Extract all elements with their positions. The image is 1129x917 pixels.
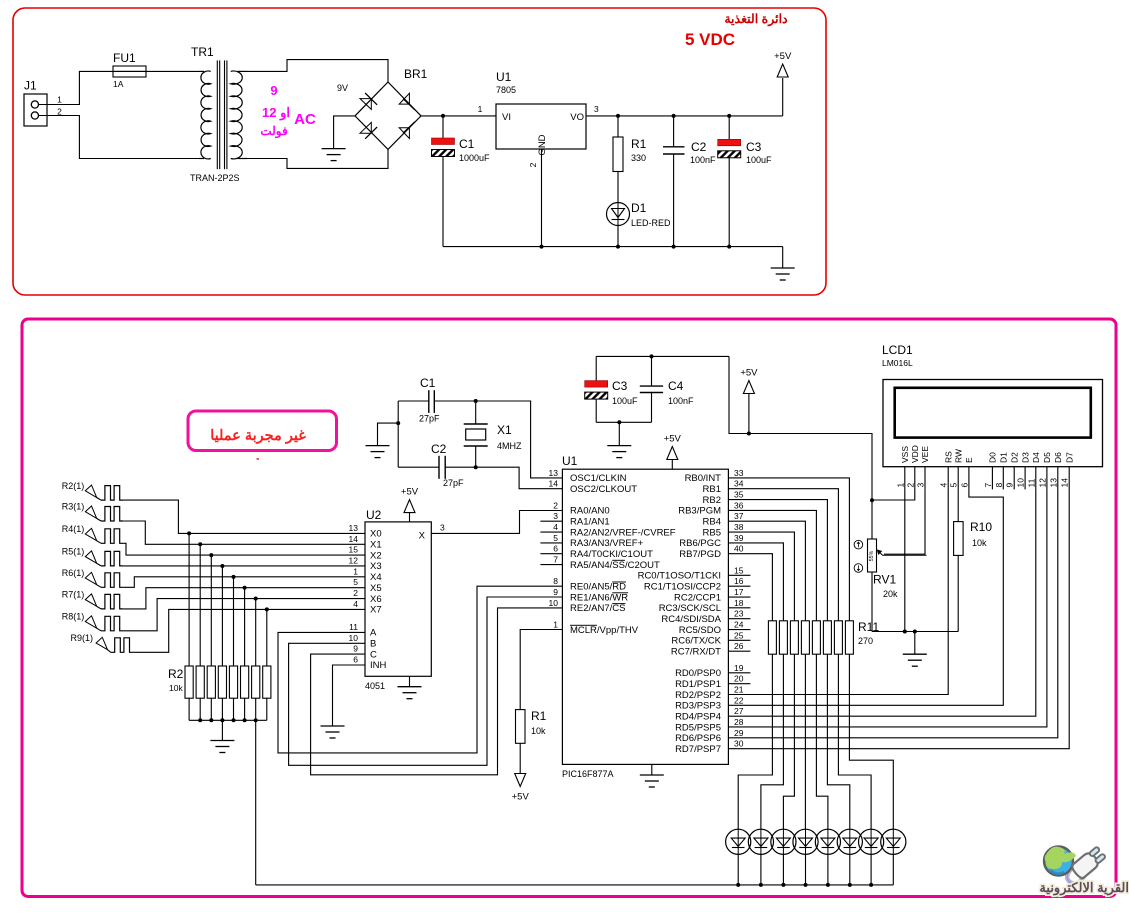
- svg-text:9: 9: [270, 83, 277, 98]
- svg-text:5: 5: [553, 533, 558, 543]
- svg-text:1A: 1A: [113, 79, 124, 89]
- svg-text:13: 13: [549, 468, 559, 478]
- svg-text:8: 8: [553, 576, 558, 586]
- svg-text:11: 11: [349, 622, 358, 632]
- svg-text:RC1/T1OSI/CCP2: RC1/T1OSI/CCP2: [644, 582, 721, 593]
- svg-text:دائرة التغذية: دائرة التغذية: [724, 12, 788, 27]
- svg-text:D6: D6: [1053, 452, 1063, 463]
- svg-text:RB7/PGD: RB7/PGD: [679, 549, 721, 560]
- svg-text:AC: AC: [294, 111, 316, 128]
- svg-text:RD2/PSP2: RD2/PSP2: [675, 690, 721, 701]
- svg-text:14: 14: [549, 479, 559, 489]
- svg-text:6: 6: [959, 483, 969, 488]
- svg-text:X3: X3: [370, 561, 382, 572]
- svg-text:3: 3: [553, 511, 558, 521]
- svg-text:12: 12: [349, 555, 359, 565]
- svg-text:VSS: VSS: [900, 446, 910, 463]
- svg-text:FU1: FU1: [113, 51, 136, 65]
- svg-text:+5V: +5V: [401, 487, 419, 498]
- svg-text:RB2: RB2: [703, 495, 721, 506]
- svg-text:C2: C2: [691, 140, 707, 154]
- svg-text:R8(1): R8(1): [62, 612, 85, 622]
- svg-text:9: 9: [1005, 483, 1015, 488]
- svg-text:1000uF: 1000uF: [459, 153, 490, 163]
- svg-text:36: 36: [734, 500, 744, 510]
- svg-text:X1: X1: [370, 539, 382, 550]
- svg-text:D1: D1: [631, 201, 647, 215]
- svg-text:8: 8: [994, 483, 1004, 488]
- svg-text:RA5/AN4/SS/C2OUT: RA5/AN4/SS/C2OUT: [570, 560, 660, 571]
- svg-text:14: 14: [349, 534, 359, 544]
- svg-text:+5V: +5V: [774, 51, 792, 62]
- svg-text:RC4/SDI/SDA: RC4/SDI/SDA: [661, 614, 721, 625]
- svg-text:RB0/INT: RB0/INT: [685, 473, 722, 484]
- svg-text:LED-RED: LED-RED: [631, 218, 671, 228]
- svg-text:OSC2/CLKOUT: OSC2/CLKOUT: [570, 484, 637, 495]
- svg-text:RD5/PSP5: RD5/PSP5: [675, 722, 721, 733]
- svg-text:6: 6: [553, 544, 558, 554]
- svg-text:19: 19: [734, 663, 744, 673]
- svg-text:R1: R1: [531, 709, 547, 723]
- svg-text:28: 28: [734, 717, 744, 727]
- svg-text:RA4/T0CKI/C1OUT: RA4/T0CKI/C1OUT: [570, 549, 653, 560]
- svg-text:A: A: [370, 628, 377, 639]
- svg-text:10k: 10k: [972, 538, 987, 548]
- svg-text:13: 13: [1048, 478, 1058, 488]
- svg-text:330: 330: [631, 153, 646, 163]
- svg-text:17: 17: [734, 587, 744, 597]
- svg-text:RE0/AN5/RD: RE0/AN5/RD: [570, 582, 626, 593]
- svg-text:4: 4: [553, 522, 558, 532]
- svg-text:RW: RW: [953, 449, 963, 463]
- svg-text:4MHZ: 4MHZ: [497, 441, 522, 451]
- svg-text:9: 9: [553, 587, 558, 597]
- svg-text:100uF: 100uF: [612, 396, 638, 406]
- svg-text:INH: INH: [370, 660, 387, 671]
- svg-text:U1: U1: [562, 454, 578, 468]
- svg-text:D3: D3: [1020, 452, 1030, 463]
- svg-text:39: 39: [734, 533, 744, 543]
- svg-text:15: 15: [734, 565, 744, 575]
- svg-text:RA1/AN1: RA1/AN1: [570, 517, 610, 528]
- svg-text:16: 16: [734, 576, 744, 586]
- svg-text:5: 5: [949, 483, 959, 488]
- svg-text:23: 23: [734, 609, 744, 619]
- svg-text:RA3/AN3/VREF+: RA3/AN3/VREF+: [570, 538, 644, 549]
- svg-text:R4(1): R4(1): [62, 524, 85, 534]
- svg-text:RC0/T1OSO/T1CKI: RC0/T1OSO/T1CKI: [638, 571, 721, 582]
- svg-text:RS: RS: [943, 451, 953, 463]
- svg-text:RV1: RV1: [873, 573, 896, 587]
- svg-text:C3: C3: [746, 140, 762, 154]
- svg-text:X5: X5: [370, 583, 382, 594]
- svg-text:10k: 10k: [169, 683, 183, 693]
- svg-text:U1: U1: [496, 70, 512, 84]
- svg-text:2: 2: [905, 483, 915, 488]
- svg-text:D1: D1: [999, 452, 1009, 463]
- svg-text:24: 24: [734, 620, 744, 630]
- svg-text:270: 270: [858, 636, 873, 646]
- svg-text:37: 37: [734, 511, 744, 521]
- svg-text:12: 12: [1037, 478, 1047, 488]
- svg-text:LCD1: LCD1: [882, 343, 913, 357]
- svg-text:10: 10: [349, 633, 359, 643]
- svg-text:RB1: RB1: [703, 484, 721, 495]
- svg-text:9V: 9V: [337, 83, 348, 93]
- svg-text:RD4/PSP4: RD4/PSP4: [675, 711, 721, 722]
- svg-text:13: 13: [349, 523, 359, 533]
- svg-text:C3: C3: [612, 379, 628, 393]
- svg-text:1: 1: [553, 620, 558, 630]
- svg-text:MCLR/Vpp/THV: MCLR/Vpp/THV: [570, 625, 639, 636]
- svg-text:RB6/PGC: RB6/PGC: [679, 538, 721, 549]
- svg-text:RD0/PSP0: RD0/PSP0: [675, 668, 721, 679]
- svg-text:35: 35: [734, 490, 744, 500]
- svg-text:J1: J1: [24, 79, 37, 93]
- svg-text:GND: GND: [537, 134, 548, 155]
- svg-text:34: 34: [734, 479, 744, 489]
- svg-text:TRAN-2P2S: TRAN-2P2S: [190, 173, 240, 183]
- svg-text:9: 9: [353, 644, 358, 654]
- svg-text:U2: U2: [366, 508, 382, 522]
- svg-text:BR1: BR1: [404, 67, 428, 81]
- svg-text:RE2/AN7/CS: RE2/AN7/CS: [570, 603, 625, 614]
- svg-text:4: 4: [353, 599, 358, 609]
- svg-text:OSC1/CLKIN: OSC1/CLKIN: [570, 473, 627, 484]
- svg-text:X7: X7: [370, 605, 382, 616]
- svg-text:غير مجربة عمليا: غير مجربة عمليا: [210, 428, 306, 444]
- svg-text:X0: X0: [370, 529, 382, 540]
- svg-text:1: 1: [478, 104, 483, 114]
- svg-text:R9(1): R9(1): [70, 633, 93, 643]
- svg-text:PIC16F877A: PIC16F877A: [562, 769, 614, 779]
- svg-text:20k: 20k: [883, 589, 898, 599]
- svg-text:30: 30: [734, 739, 744, 749]
- svg-text:10: 10: [1016, 478, 1026, 488]
- svg-text:+5V: +5V: [664, 434, 682, 445]
- svg-text:R2(1): R2(1): [62, 481, 85, 491]
- svg-text:RB5: RB5: [703, 527, 721, 538]
- svg-text:R5(1): R5(1): [62, 547, 85, 557]
- svg-text:RD3/PSP3: RD3/PSP3: [675, 701, 721, 712]
- svg-text:14: 14: [1060, 478, 1070, 488]
- svg-text:29: 29: [734, 728, 744, 738]
- svg-text:C4: C4: [668, 379, 684, 393]
- svg-text:R3(1): R3(1): [62, 502, 85, 512]
- svg-text:18: 18: [734, 598, 744, 608]
- svg-text:40: 40: [734, 544, 744, 554]
- svg-text:2: 2: [57, 106, 62, 116]
- svg-text:5: 5: [353, 577, 358, 587]
- svg-text:11: 11: [1026, 478, 1036, 487]
- svg-text:RC6/TX/CK: RC6/TX/CK: [671, 636, 721, 647]
- svg-text:D0: D0: [988, 452, 998, 463]
- svg-text:7: 7: [983, 483, 993, 488]
- svg-text:D5: D5: [1042, 452, 1052, 463]
- svg-text:38: 38: [734, 522, 744, 532]
- svg-text:او 12: او 12: [262, 105, 290, 121]
- svg-text:4051: 4051: [365, 681, 385, 691]
- svg-text:100uF: 100uF: [746, 155, 772, 165]
- svg-text:X4: X4: [370, 572, 382, 583]
- svg-text:RD1/PSP1: RD1/PSP1: [675, 679, 721, 690]
- svg-text:20: 20: [734, 674, 744, 684]
- svg-text:VDD: VDD: [910, 445, 920, 463]
- svg-text:1: 1: [895, 483, 905, 488]
- svg-text:27pF: 27pF: [419, 414, 440, 424]
- svg-text:C1: C1: [459, 137, 475, 151]
- svg-text:RD6/PSP6: RD6/PSP6: [675, 733, 721, 744]
- svg-text:+5V: +5V: [512, 792, 530, 803]
- svg-text:B: B: [370, 639, 376, 650]
- svg-text:10k: 10k: [531, 726, 546, 736]
- svg-text:R1: R1: [631, 137, 647, 151]
- svg-text:21: 21: [734, 685, 744, 695]
- svg-text:R6(1): R6(1): [62, 568, 85, 578]
- svg-text:2: 2: [553, 500, 558, 510]
- svg-text:6: 6: [353, 655, 358, 665]
- svg-text:100nF: 100nF: [668, 396, 694, 406]
- svg-text:RC7/RX/DT: RC7/RX/DT: [671, 646, 721, 657]
- svg-text:RA0/AN0: RA0/AN0: [570, 506, 610, 517]
- svg-text:3: 3: [594, 104, 599, 114]
- svg-text:X2: X2: [370, 550, 382, 561]
- svg-text:100nF: 100nF: [690, 155, 716, 165]
- svg-text:1: 1: [57, 94, 62, 104]
- svg-text:D2: D2: [1009, 452, 1019, 463]
- svg-text:5 VDC: 5 VDC: [685, 30, 735, 49]
- svg-text:7: 7: [553, 555, 558, 565]
- svg-text:VI: VI: [502, 112, 511, 123]
- svg-text:C: C: [370, 649, 377, 660]
- svg-text:LM016L: LM016L: [882, 358, 913, 368]
- svg-text:RC2/CCP1: RC2/CCP1: [674, 592, 721, 603]
- svg-text:E: E: [964, 457, 974, 463]
- svg-text:25: 25: [734, 630, 744, 640]
- svg-text:27pF: 27pF: [443, 478, 464, 488]
- svg-text:X6: X6: [370, 594, 382, 605]
- svg-text:26: 26: [734, 641, 744, 651]
- svg-text:القرية الالكترونية: القرية الالكترونية: [1039, 880, 1129, 896]
- svg-text:TR1: TR1: [191, 45, 214, 59]
- svg-text:2: 2: [528, 162, 538, 167]
- svg-text:RB3/PGM: RB3/PGM: [678, 506, 721, 517]
- svg-text:15: 15: [349, 545, 359, 555]
- svg-text:RC3/SCK/SCL: RC3/SCK/SCL: [659, 603, 721, 614]
- svg-text:VEE: VEE: [920, 446, 930, 463]
- svg-text:10: 10: [549, 598, 559, 608]
- svg-text:4: 4: [939, 483, 949, 488]
- svg-text:فولت: فولت: [260, 124, 288, 139]
- svg-text:VO: VO: [570, 112, 584, 123]
- svg-text:C2: C2: [431, 442, 447, 456]
- svg-text:1: 1: [353, 566, 358, 576]
- svg-text:R7(1): R7(1): [62, 590, 85, 600]
- svg-text:3: 3: [916, 483, 926, 488]
- svg-text:33: 33: [734, 468, 744, 478]
- svg-text:RB4: RB4: [703, 517, 721, 528]
- svg-text:55%: 55%: [869, 550, 875, 561]
- svg-text:D4: D4: [1031, 452, 1041, 463]
- svg-text:2: 2: [353, 588, 358, 598]
- svg-text:22: 22: [734, 695, 744, 705]
- svg-text:X: X: [419, 531, 426, 542]
- svg-text:+5V: +5V: [740, 368, 758, 379]
- svg-text:3: 3: [440, 523, 445, 533]
- svg-text:D7: D7: [1064, 452, 1074, 463]
- svg-text:R2: R2: [168, 667, 184, 681]
- svg-text:X1: X1: [497, 423, 512, 437]
- svg-text:7805: 7805: [496, 85, 516, 95]
- svg-text:27: 27: [734, 706, 744, 716]
- svg-text:C1: C1: [420, 376, 436, 390]
- svg-text:R10: R10: [970, 520, 992, 534]
- svg-text:RD7/PSP7: RD7/PSP7: [675, 744, 721, 755]
- svg-text:RC5/SDO: RC5/SDO: [679, 625, 721, 636]
- svg-text:RE1/AN6/WR: RE1/AN6/WR: [570, 592, 628, 603]
- svg-text:RA2/AN2/VREF-/CVREF: RA2/AN2/VREF-/CVREF: [570, 527, 676, 538]
